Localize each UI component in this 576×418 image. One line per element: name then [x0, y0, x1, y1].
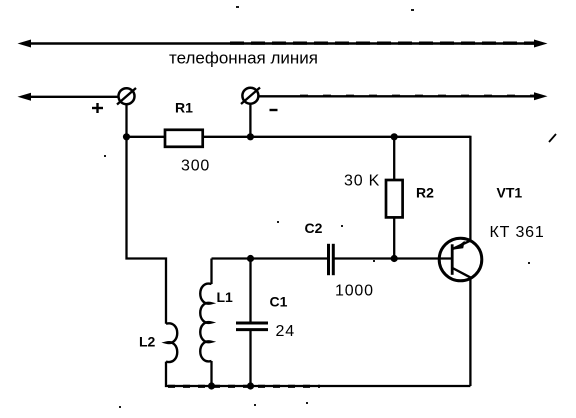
wire: telephone line lower left segment: [18, 93, 119, 101]
svg-text:R2: R2: [416, 185, 434, 201]
wire: R2 top lead: [393, 137, 395, 180]
node: C1 top junction: [247, 255, 254, 262]
wire: X2 stem to node B: [249, 104, 251, 137]
terminal X1: [117, 88, 136, 105]
wire: node A to R1: [127, 136, 166, 138]
wire: R1 to corner, top rail: [203, 136, 471, 138]
transistor VT1 base bar: [451, 244, 454, 274]
wire: C1 top lead: [249, 259, 251, 322]
wire: top rail corner down to VT1 emitter: [469, 136, 471, 241]
node: R2 bottom junction: [391, 255, 398, 262]
node: L1 bottom junction: [208, 382, 215, 389]
svg-text:C2: C2: [305, 220, 323, 236]
inductor L2: [166, 323, 177, 362]
resistor R2: [386, 180, 403, 217]
svg-text:24: 24: [276, 323, 295, 340]
node: C1 bottom junction: [247, 382, 254, 389]
svg-text:30 K: 30 K: [344, 173, 380, 190]
wire: C2 to VT1 base: [333, 257, 452, 259]
wire: X1 stem to node A: [125, 104, 127, 137]
svg-text:C1: C1: [270, 294, 288, 310]
wire: telephone line lower right segment: [259, 92, 548, 100]
svg-text:R1: R1: [175, 100, 193, 116]
wire: bottom rail up to VT1 collector: [469, 280, 471, 387]
capacitor C2: [329, 244, 334, 275]
node A junction: [123, 133, 130, 140]
transistor VT1 body: [439, 238, 482, 281]
svg-text:L2: L2: [139, 334, 156, 350]
transistor VT1 emitter arrow: [453, 241, 465, 250]
wire: mid rail L1 to C2: [212, 257, 328, 259]
wire: L2 bottom to bottom rail corner: [166, 362, 470, 386]
wire: left branch down from node A: [127, 137, 167, 324]
terminal X2: [241, 88, 260, 105]
svg-text:КТ 361: КТ 361: [490, 224, 545, 241]
node C junction (R2 top): [391, 133, 398, 140]
wire: L1 bottom lead: [210, 361, 212, 386]
svg-text:L1: L1: [217, 289, 234, 305]
wire: L1 top lead: [210, 259, 212, 285]
svg-text:1000: 1000: [335, 283, 374, 300]
label: − polarity: [270, 109, 278, 111]
svg-text:VT1: VT1: [497, 185, 523, 201]
transistor VT1 collector lead: [453, 268, 473, 278]
scan mark slash: [549, 134, 556, 142]
label: + polarity: [92, 103, 103, 113]
inductor L1: [200, 284, 211, 362]
transistor VT1 emitter lead: [453, 240, 472, 249]
capacitor C1: [236, 323, 268, 330]
resistor R1: [165, 130, 203, 147]
wire: telephone line upper: [18, 40, 548, 48]
node B junction: [247, 133, 254, 140]
wire: R2 bottom lead: [393, 217, 395, 258]
svg-text:телефонная линия: телефонная линия: [169, 49, 318, 68]
wire: C1 bottom lead: [249, 330, 251, 386]
svg-text:300: 300: [181, 158, 210, 175]
